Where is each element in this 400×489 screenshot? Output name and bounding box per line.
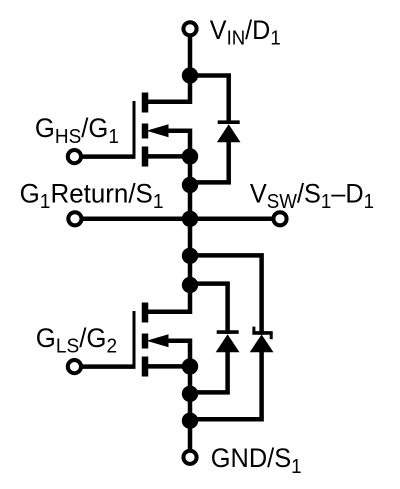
wire: node D to VSW terminal <box>190 217 272 222</box>
diode D1 (Q1 body diode) <box>217 122 241 142</box>
node I <box>182 413 198 429</box>
Q1 gate line <box>133 101 136 157</box>
terminal GHS <box>68 150 81 163</box>
Q2 channel bar drain <box>142 303 149 323</box>
wire: main vertical node G through H,I to GND terminal <box>188 366 193 450</box>
Q1 channel bar source <box>142 147 149 167</box>
Q2 channel bar source <box>142 357 149 377</box>
wire: main vertical node B through C,D,E to node F and Q2 drain stub <box>146 156 190 311</box>
transistor Q1 (high-side MOSFET) <box>134 93 169 167</box>
wire: Q1 body arrow line to source node B <box>166 131 190 157</box>
wire: Q2 body diode bottom back to node H <box>190 352 228 392</box>
node A <box>182 67 198 83</box>
terminal G1Return <box>68 212 81 225</box>
wire: GLS gate lead <box>81 364 136 369</box>
node D <box>182 211 198 227</box>
node E <box>182 248 198 264</box>
Q1 channel bar drain <box>142 93 149 113</box>
wire: GHS gate lead <box>81 154 136 159</box>
Q1 body arrow <box>147 124 169 137</box>
node G <box>182 358 198 374</box>
wire: Q2 body arrow line to source node G <box>166 341 190 367</box>
wire: node F right to Q2 body diode branch <box>190 284 228 334</box>
wire: VIN terminal to node A down to Q1 drain stub <box>146 35 190 102</box>
diode D3 (schottky) <box>250 327 274 353</box>
wire: G1Return lead to node D <box>82 217 190 222</box>
node B <box>182 148 198 164</box>
transistor Q2 (low-side MOSFET) <box>134 303 169 377</box>
terminal GLS <box>68 360 81 373</box>
wire: top diode bottom back to node C <box>190 142 229 182</box>
terminal VSW <box>273 212 286 225</box>
diode D2 (Q2 body diode) <box>216 332 240 352</box>
wire: node E right to schottky diode branch <box>190 255 262 334</box>
svg-text:VIN/D1: VIN/D1 <box>210 14 281 50</box>
Q2 body arrow <box>147 334 169 347</box>
node F <box>182 277 198 293</box>
svg-text:GND/S1: GND/S1 <box>211 442 302 478</box>
wire: Q2 source stub <box>146 364 190 369</box>
wire: Q1 source stub <box>146 154 190 159</box>
Q2 channel bar body <box>142 334 149 349</box>
Q1 channel bar body <box>142 124 149 139</box>
node C <box>182 177 198 193</box>
wire: schottky diode bottom back to node I <box>190 352 262 419</box>
node H <box>182 386 198 402</box>
terminal GND <box>183 451 196 464</box>
terminal VIN <box>183 22 196 35</box>
wire: node A right to top diode branch <box>190 76 229 124</box>
Q2 gate line <box>133 311 136 367</box>
